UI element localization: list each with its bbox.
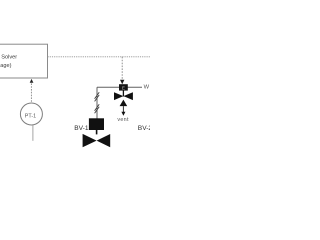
svg-text:BV-1: BV-1 xyxy=(74,125,89,132)
valve BV-1 left triangle xyxy=(83,134,97,147)
svg-text:PT-1: PT-1 xyxy=(25,114,36,120)
valve BV-1 stem xyxy=(96,130,98,134)
pressure transmitter PT-1 xyxy=(20,103,42,125)
signal wire (dashed horizontal from box to right edge) xyxy=(48,56,151,58)
svg-text:W: W xyxy=(144,85,150,91)
svg-text:vent: vent xyxy=(117,117,129,123)
valve BV-1 right triangle xyxy=(97,134,111,147)
signal wire (dashed vertical drop to solenoid) xyxy=(121,57,123,80)
solenoid box S xyxy=(119,84,128,90)
vent arrowhead xyxy=(121,112,125,116)
flex break marks lower xyxy=(95,104,100,113)
controller box xyxy=(0,44,48,78)
vent stem xyxy=(122,106,124,112)
solenoid-to-valve stem xyxy=(122,90,124,96)
pipe elbow down to BV-1 xyxy=(96,87,98,118)
3-way valve left triangle xyxy=(114,92,123,100)
arrowhead into solenoid xyxy=(120,80,124,85)
svg-text:E: E xyxy=(122,85,125,90)
svg-text:BV-2: BV-2 xyxy=(138,125,150,132)
impulse line below PT-1 xyxy=(32,125,34,141)
valve BV-1 actuator block xyxy=(89,118,104,130)
pipe line to W (horizontal) xyxy=(97,86,142,88)
svg-text:Solver: Solver xyxy=(1,55,17,61)
3-way valve bottom port triangle xyxy=(120,100,128,107)
flex break marks upper xyxy=(95,92,100,101)
svg-text:age): age) xyxy=(0,63,11,69)
instrument signal wire (dashed vertical PT-1 to box) xyxy=(30,83,32,103)
3-way valve right triangle xyxy=(123,92,132,100)
arrowhead into box from PT-1 xyxy=(30,79,34,83)
